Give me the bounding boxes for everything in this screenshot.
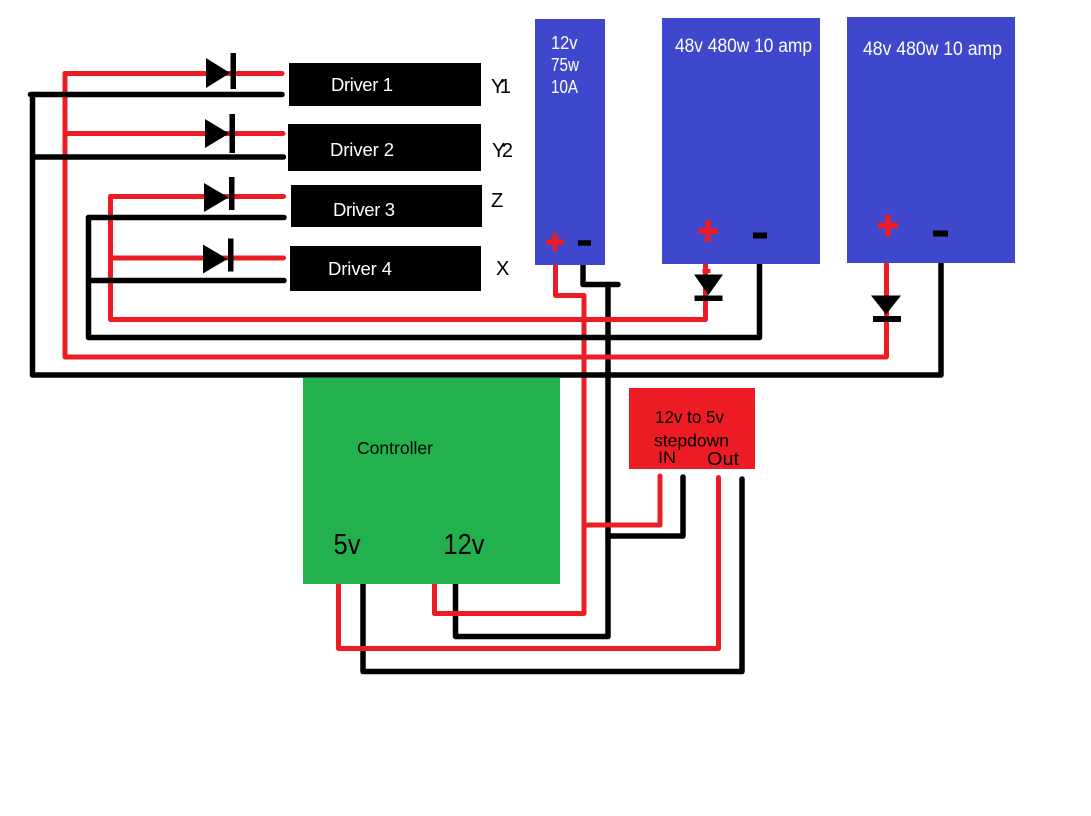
PSU1 minus (578, 240, 591, 246)
PSU1 plus (546, 233, 564, 251)
PSU2 48v box (662, 18, 820, 264)
PSU3 minus (933, 231, 948, 237)
svg-text:IN: IN (658, 448, 676, 467)
svg-text:12v: 12v (551, 32, 578, 53)
diode D1 (206, 53, 236, 89)
driver 1 box (289, 63, 481, 106)
wire: branch black 12v line to stepdown IN- (608, 477, 683, 536)
svg-text:Driver 2: Driver 2 (330, 139, 394, 160)
svg-text:12v: 12v (444, 529, 485, 561)
wire: black bus D drivers 1/2 to PSU3 - (33, 95, 942, 376)
svg-text:Controller: Controller (357, 438, 433, 458)
wire: driver 3 black (89, 215, 285, 221)
svg-text:Y1: Y1 (491, 76, 511, 98)
svg-text:Y2: Y2 (492, 140, 513, 162)
svg-text:12v to 5v: 12v to 5v (655, 407, 724, 427)
wire: driver 4 black (89, 278, 285, 284)
wire: 12v PSU - (black) down/right (583, 260, 618, 285)
diode D4 (203, 239, 234, 274)
PSU3 plus (878, 215, 898, 237)
wire: 12v PSU + (red) down/right/down to controller 12v (435, 260, 585, 614)
stepdown box (629, 388, 755, 469)
wire: driver 1 red (65, 71, 282, 76)
driver 4 box (290, 246, 481, 291)
wire: branch red 12v line to stepdown IN (584, 476, 660, 525)
svg-text:Z: Z (491, 190, 503, 212)
PSU3 48v box (847, 17, 1015, 263)
svg-text:48v 480w 10 amp: 48v 480w 10 amp (863, 39, 1002, 60)
svg-text:Driver 4: Driver 4 (328, 258, 392, 279)
wire: driver 2 black (33, 154, 284, 160)
svg-text:Driver 1: Driver 1 (331, 74, 393, 95)
svg-text:Driver 3: Driver 3 (333, 199, 395, 220)
svg-text:5v: 5v (334, 529, 361, 561)
svg-text:X: X (496, 258, 509, 280)
driver 2 box (288, 124, 481, 171)
diode D2 (205, 114, 235, 153)
diode D6 under PSU3 (871, 296, 901, 323)
wire: driver 3 red (111, 194, 284, 199)
PSU1 12v 75w box (535, 19, 605, 265)
PSU2 plus (698, 220, 718, 242)
wire: black 12v return down to controller 12v (456, 285, 609, 637)
wire: driver 1 black (31, 92, 283, 98)
svg-text:48v 480w 10 amp: 48v 480w 10 amp (675, 36, 812, 57)
wire: controller 5v red from stepdown Out (339, 478, 719, 649)
svg-text:10A: 10A (551, 76, 579, 97)
wire: red bus A drivers 3/4 to PSU2 + via diode (111, 197, 706, 320)
wire: black bus B drivers 3/4 to PSU2 - (89, 218, 760, 338)
diode D3 (204, 177, 235, 212)
wire: controller 5v black return to stepdown (363, 479, 742, 672)
wire: driver 2 red (65, 131, 283, 136)
wire: driver 4 red (111, 256, 284, 261)
driver 3 box (291, 185, 482, 227)
diode D5 under PSU2 (694, 275, 723, 302)
PSU2 minus (753, 233, 767, 239)
controller box (303, 378, 560, 584)
svg-text:Out: Out (707, 448, 739, 469)
red tick under PSU2 plus (703, 269, 711, 273)
svg-text:75w: 75w (551, 54, 580, 75)
wire: red bus C drivers 1/2 to PSU3 + via diode (65, 74, 887, 358)
